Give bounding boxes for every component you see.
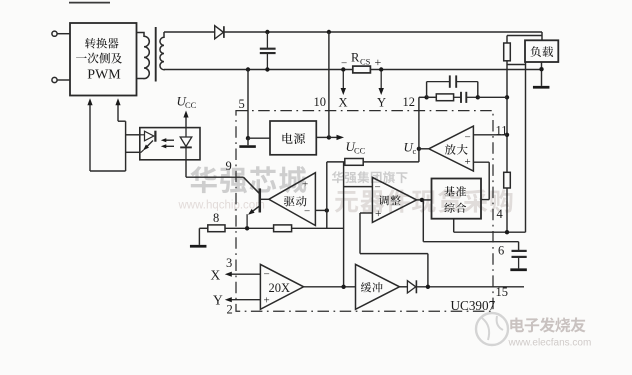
voltage amp U7 [429,126,474,171]
wire feedback to output [478,96,507,98]
svg-text:Y: Y [213,293,223,308]
label 11 [496,124,508,138]
transformer T1 core [155,27,157,82]
svg-text:4: 4 [497,207,504,221]
input terminal top [52,31,70,36]
wire pin5 [246,70,250,141]
wire adjust plus path [360,213,428,287]
label Y top [377,96,386,110]
svg-text:9: 9 [226,159,232,173]
wire load to ground [539,62,543,86]
wire pin9 from LED [186,160,243,177]
wire feedback jog [419,95,429,99]
label 10 [314,95,327,109]
svg-text:+: + [264,295,270,307]
wire loop right [125,121,127,171]
label X bottom [211,268,221,283]
transformer T1 secondary winding [160,32,164,70]
svg-text:www.elecfans.com: www.elecfans.com [508,338,592,349]
svg-text:8: 8 [213,211,219,225]
wire Uc node [417,97,429,162]
svg-text:+: + [465,156,471,168]
optocoupler LED [180,128,192,160]
transistor Q1 [243,177,259,228]
label X top [339,96,348,110]
label Y bottom [213,293,223,308]
watermark components line [335,189,513,213]
feedback series capacitor C2 [454,92,478,103]
arrow into PWM left [87,98,92,171]
IC boundary UC3907 [236,111,493,312]
input terminal bottom [52,77,70,82]
label Uc [404,140,417,157]
wire ref bottom [453,219,455,233]
optocoupler phototransistor [140,131,156,153]
wire top rail [224,30,542,34]
watermark hqchip big text [190,166,306,193]
svg-text:20X: 20X [269,281,291,295]
wire bottom rail left [164,67,353,71]
wire buffer to diode [400,286,408,288]
svg-text:−: − [304,206,310,218]
wire drive node vertical [326,162,328,228]
label Ucc top [177,94,197,111]
wire pin8 row [225,226,274,230]
svg-text:PWM: PWM [87,68,121,83]
svg-text:R: R [351,51,360,65]
arrow X input [225,272,261,277]
wire opto collector [126,134,140,136]
wire pin15 [416,285,524,289]
wire top jog to load [507,32,542,40]
svg-text:2: 2 [227,303,233,317]
feedback resistor R6 [427,94,454,101]
label 2 [227,303,233,317]
wire pin4 row [454,230,526,234]
transformer T1 primary winding [136,33,149,79]
resistor R5 pullup [345,159,363,166]
label 9 [226,159,232,173]
wire loop bottom [90,170,126,172]
watermark elecfans url [508,338,592,349]
svg-text:−: − [465,132,471,144]
svg-text:c: c [413,146,417,156]
resistor RCS [341,51,382,73]
wire feedback left vertical [426,82,428,98]
svg-text:+: + [375,55,382,69]
current amp U8 20X [260,264,303,309]
sense arrow X [341,71,346,95]
wire base to drive [261,198,269,200]
ground under load [533,86,550,89]
svg-text:X: X [211,268,221,283]
wire pin5 to power [248,137,270,139]
watermark elecfans logo [476,313,508,345]
wire load bottom drop [525,62,527,232]
wire R4 to node [292,227,344,229]
wire bottom rail right [370,67,541,71]
capacitor C3 pin6 [512,251,527,269]
label 3 [226,256,232,270]
watermark hq group line [332,171,408,183]
svg-text:15: 15 [496,285,509,299]
svg-text:X: X [339,96,348,110]
wire power out [316,135,331,139]
label 6 [498,244,504,258]
svg-text:+: + [302,179,308,191]
wire adjust out [417,198,432,202]
label 12 [403,95,416,109]
svg-text:5: 5 [239,97,245,111]
svg-text:3: 3 [226,256,232,270]
optocoupler light arrows [161,138,174,148]
svg-text:UC3907: UC3907 [451,298,496,313]
wire pin6 branch [423,200,518,250]
ground pin6 [510,268,526,271]
feedback top branch capacitor [427,75,478,87]
arrow Ucc supply [329,135,344,140]
wire share node vertical [343,162,345,287]
sense arrow Y [379,71,384,95]
wire pullup right [363,161,419,163]
wire divider node [507,64,526,66]
wire divider line [505,65,509,173]
svg-text:6: 6 [498,244,504,258]
wire pullup left [327,161,345,163]
arrow Y input [225,297,261,302]
label 8 [213,211,219,225]
capacitor C1 [260,32,276,70]
label 5 [239,97,245,111]
converter-PWM box U1 [70,23,137,96]
svg-text:−: − [375,181,381,193]
label UC3907 [451,298,496,313]
wire amp minus pin11 [473,134,507,136]
wire opto emitter [126,151,140,153]
watermark hqchip url [178,200,265,212]
svg-text:CS: CS [360,57,371,67]
arrow Ucc top [183,111,188,128]
svg-text:10: 10 [314,95,327,109]
svg-text:+: + [375,208,382,220]
label Ucc mid [346,139,366,156]
label 4 [497,207,504,221]
resistor R1 divider top [504,36,511,65]
wire drive minus node [315,208,329,212]
wire loop jog [118,120,126,122]
reference box U6 [432,179,482,219]
svg-text:12: 12 [403,95,416,109]
wire R3 to ground [199,228,207,245]
arrow into PWM right [115,98,120,121]
drive amp U4 [269,173,316,226]
wire 20X out [304,285,356,289]
load box [525,40,558,62]
scan artifact line top [69,2,110,4]
resistor R3 [208,225,225,232]
ground pin8 [190,245,207,248]
resistor R4 [274,225,292,232]
svg-text:CC: CC [354,146,366,156]
power box U2 [270,121,316,155]
wire ref right to amp plus [481,162,489,199]
wire adjust minus [344,186,373,188]
label 15 [496,285,509,299]
diode D1 [215,26,224,39]
svg-text:CC: CC [185,100,197,110]
resistor R2 divider bottom [504,172,511,232]
svg-text:11: 11 [496,124,508,138]
wire pin10 [328,32,330,137]
diode D2 [407,280,416,293]
wire secondary top to diode [164,31,215,33]
wire amp plus [473,161,489,163]
svg-text:−: − [264,269,270,281]
wire feedback right vertical [476,82,480,100]
ground pin5 [239,138,256,146]
svg-text:−: − [341,58,347,70]
adjust amp U5 [372,177,416,222]
buffer amp U9 [356,264,400,309]
watermark elecfans text [510,317,585,332]
svg-text:Y: Y [377,96,386,110]
optocoupler box U3 [140,128,200,160]
